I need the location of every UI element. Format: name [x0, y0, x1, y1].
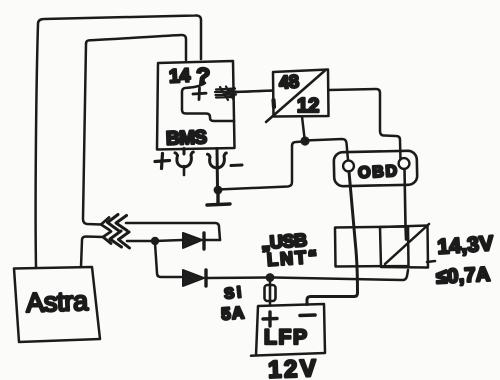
wire Astra top to lower chevron bend	[81, 237, 103, 268]
svg-text:Astra: Astra	[26, 286, 90, 318]
node C ground junction dot	[214, 186, 223, 195]
box OBD connector	[334, 151, 418, 187]
svg-text:12: 12	[297, 95, 319, 117]
diode D2	[183, 270, 206, 286]
fuse F1 body	[265, 285, 276, 301]
wire inner loop Astra to BMS top	[86, 35, 186, 60]
wire inner vertical from loop down to chevron bend	[83, 44, 101, 225]
wire node A down to diode D2 branch	[155, 243, 181, 277]
svg-text:12V: 12V	[268, 355, 317, 380]
box Astra	[14, 267, 100, 342]
wire node B down to fuse	[269, 280, 272, 305]
LFP minus terminal	[300, 313, 315, 317]
wire upper chevron to diode D1 cathode corner	[126, 223, 220, 240]
box USB charger right section	[380, 226, 428, 268]
wire OBD right terminal down into charger	[405, 169, 407, 240]
svg-text:14: 14	[168, 65, 191, 87]
DCDC diagonal	[266, 71, 325, 123]
wire node D to OBD left terminal	[305, 139, 348, 160]
DCDC left edge blob	[271, 100, 276, 107]
wire diode D2 to fuse node and USB charger input	[207, 270, 408, 280]
box LFP battery	[251, 304, 325, 356]
OBD terminal left circle	[343, 161, 354, 172]
ground symbol GND	[207, 192, 230, 205]
chevron marks lower pair	[103, 232, 111, 244]
USB charger diagonal	[385, 224, 429, 264]
svg-text:?: ?	[195, 63, 211, 90]
label plus at BMS left pin	[155, 154, 170, 169]
wire node C to 48/12 node	[218, 142, 303, 190]
svg-text:LFP: LFP	[264, 326, 307, 349]
svg-text:48: 48	[278, 71, 299, 92]
svg-text:LNT“: LNT“	[266, 246, 317, 269]
OBD terminal right circle	[399, 158, 410, 169]
chevron marks upper pair	[101, 218, 110, 231]
node D junction dot under 48/12	[300, 136, 309, 145]
USB charger bottom-right tick	[427, 261, 435, 262]
diode D1	[183, 233, 220, 249]
svg-text:BMS: BMS	[166, 127, 208, 149]
wire outer loop Astra top-left to BMS top	[36, 15, 201, 267]
BMS inner step outline	[182, 83, 234, 121]
svg-text:14,3V: 14,3V	[437, 232, 494, 259]
wire OBD left terminal down to LFP minus	[307, 172, 358, 305]
label minus at BMS right pin	[231, 164, 242, 168]
wire DCDC output to OBD right terminal	[329, 89, 401, 160]
wire 48/12 bottom to node D	[302, 117, 305, 139]
label plus in BMS	[193, 88, 206, 100]
wire BMS to DCDC input	[234, 91, 273, 93]
svg-text:5A: 5A	[221, 303, 245, 324]
box BMS	[157, 61, 235, 150]
BMS plus pin connector fork	[175, 149, 193, 176]
svg-text:≤0,7A: ≤0,7A	[436, 264, 491, 289]
svg-text:OBD: OBD	[358, 163, 398, 182]
node A junction dot	[151, 237, 159, 245]
svg-text:Si: Si	[223, 284, 242, 303]
wire node A to diode D1 anode	[155, 240, 182, 241]
LFP plus terminal	[263, 312, 277, 326]
box USB charger left section	[335, 227, 409, 267]
node B fuse junction dot	[266, 273, 275, 282]
box DCDC 48/12	[273, 70, 329, 117]
BMS minus pin connector fork	[208, 149, 227, 189]
BMS crossed-out label with arrow	[215, 87, 273, 101]
wire lower chevron to junction node A	[127, 240, 153, 243]
